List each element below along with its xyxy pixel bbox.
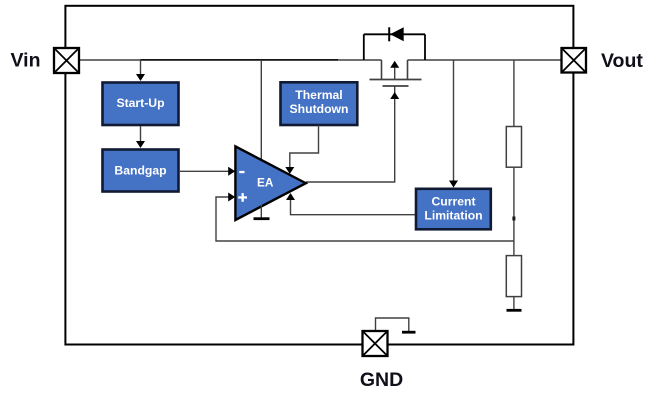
channel line [370,79,422,81]
op-amp EA (error amplifier) [235,146,305,220]
pin Vout [562,48,587,73]
gate plate [383,85,409,87]
block Thermal Shutdown [281,82,358,125]
pin Vin [54,48,79,73]
node: feedback tap junction [512,217,515,221]
wire: R1 to R2 (feedback node) [513,167,515,256]
non-inverting input mark + [238,196,247,198]
drain stub [407,60,409,80]
outer border (chip boundary) [65,6,573,345]
diode: body diode across M1 [364,27,425,60]
wire: Current Limitation to EA (arrow) [286,193,415,215]
bulk arrow to source [394,66,396,80]
svg-text:Current: Current [431,194,475,208]
wire: Thermal Shutdown to EA (arrow) [285,125,318,174]
svg-text:Vin: Vin [11,50,41,72]
wire: Bandgap to EA inverting input (arrow) [180,167,235,176]
ground: GND tie-down symbol [376,318,416,332]
pin GND [363,331,388,356]
resistor R2 [506,256,521,297]
svg-text:Bandgap: Bandgap [114,163,166,177]
source stub [381,60,383,80]
wire: feedback node to EA non-inverting input (arrow) [216,193,514,242]
wire: Vout rail down to R1 [513,60,515,127]
svg-text:Limitation: Limitation [424,209,482,223]
wire: EA output to MOSFET gate (arrow mid-line) [306,87,399,183]
svg-text:EA: EA [257,176,274,190]
wire: Start-Up to Bandgap (arrow) [136,126,145,148]
ground: EA reference [254,205,270,219]
wire: Vout rail down to Current Limitation (arrow) [449,60,458,188]
transistor M1 (PMOS pass element) [370,60,422,86]
wire: R2 to ground [513,297,515,310]
svg-text:GND: GND [360,369,403,391]
svg-text:Vout: Vout [601,50,643,72]
wire: Vin rail to MOSFET source [66,59,382,61]
wire: Vin rail down to EA supply [260,60,262,164]
wire: Vin rail down to Start-Up (arrow) [136,60,145,81]
svg-text:Thermal: Thermal [295,88,342,102]
inverting input mark - [239,171,244,173]
wire: MOSFET drain to Vout rail [408,59,574,61]
block Current Limitation [416,189,491,230]
svg-text:Shutdown: Shutdown [290,102,349,116]
resistor R1 [506,127,521,168]
block Bandgap [103,150,179,192]
block Start-Up [103,83,179,126]
svg-text:Start-Up: Start-Up [116,96,164,110]
wire: Vin rail darker segment [141,59,339,61]
ground: divider return [507,309,522,312]
